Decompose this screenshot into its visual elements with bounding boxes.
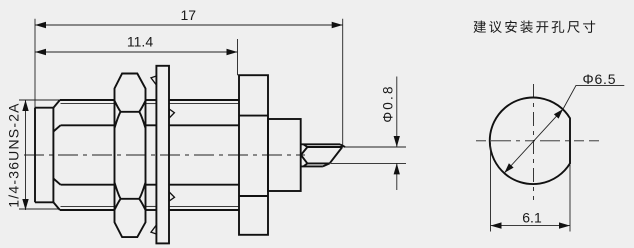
svg-text:Φ6.5: Φ6.5 [583, 71, 617, 87]
svg-text:6.1: 6.1 [522, 210, 542, 226]
svg-text:Φ0.8: Φ0.8 [381, 84, 396, 122]
svg-text:17: 17 [181, 7, 197, 23]
svg-text:1/4-36UNS-2A: 1/4-36UNS-2A [5, 102, 21, 207]
svg-text:11.4: 11.4 [127, 34, 153, 50]
